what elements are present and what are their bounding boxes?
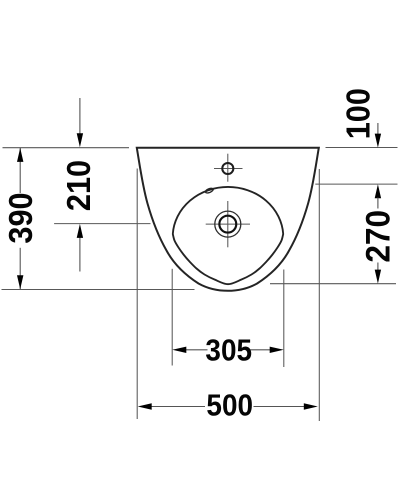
overflow hole (205, 187, 214, 194)
svg-text:100: 100 (339, 88, 376, 139)
305 right extension line (283, 270, 285, 368)
svg-text:390: 390 (2, 192, 39, 243)
drain inner ring (219, 216, 236, 233)
dimension 305 line (185, 349, 208, 351)
dimension 305 arrow right (270, 347, 284, 353)
svg-text:500: 500 (206, 388, 253, 423)
dimension 390 arrow up (17, 148, 23, 162)
svg-text:210: 210 (60, 160, 97, 211)
dimension 305 arrow left (172, 347, 186, 353)
top reference line left (3, 147, 130, 149)
faucet hole (222, 163, 233, 174)
dimension 390 line upper (19, 148, 21, 193)
svg-text:270: 270 (358, 210, 396, 263)
dimension 270 arrow up (375, 184, 381, 198)
500 right extension line (318, 169, 320, 421)
dimension 390 line lower (19, 248, 21, 289)
drain crosshair (206, 223, 250, 225)
faucet hole crosshair (214, 168, 243, 170)
svg-text:305: 305 (205, 333, 252, 368)
top extension line right (326, 147, 398, 149)
dimension 210 upper arrow (above wall line) (79, 98, 81, 134)
dimension 500 arrow right (304, 403, 318, 409)
basin outline (137, 148, 319, 291)
drain outer ring (215, 211, 241, 237)
dimension 390 arrow down (17, 275, 23, 289)
210 tick line (54, 223, 150, 225)
bowl-bottom reference line right (270, 283, 396, 285)
dimension 100 arrow down (377, 123, 379, 135)
500 left extension line (136, 169, 138, 420)
bottom reference line left (2, 289, 195, 291)
dimension 500 arrow left (138, 403, 152, 409)
bowl-top reference line right (315, 183, 397, 185)
dimension 500 line (150, 406, 206, 408)
dimension 210 lower arrow (below tick) (79, 238, 81, 272)
dimension 270 arrow down (377, 263, 379, 271)
bowl outline (173, 187, 283, 284)
305 left extension line (171, 269, 173, 366)
